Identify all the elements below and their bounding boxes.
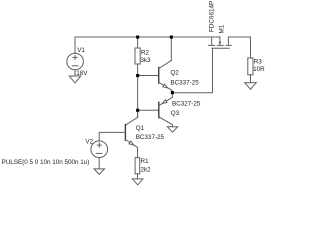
resistor R2 3k3 (135, 48, 140, 64)
svg-text:V2: V2 (85, 139, 93, 146)
svg-text:Q3: Q3 (171, 110, 180, 117)
wire R1 bottom (137, 174, 139, 179)
svg-text:V1: V1 (77, 47, 85, 54)
junction node rail/R2 (136, 36, 139, 39)
ground below V1 (69, 76, 81, 83)
svg-text:10R: 10R (253, 66, 265, 73)
svg-text:R2: R2 (141, 49, 150, 56)
mosfet M1 FDC6614P (209, 37, 232, 48)
svg-text:3k3: 3k3 (140, 57, 151, 64)
svg-text:M1: M1 (218, 24, 225, 33)
junction node emitters/gate (171, 91, 174, 94)
svg-text:18V: 18V (76, 70, 88, 77)
voltage source V2 (91, 141, 108, 169)
wire Q2 base (138, 75, 159, 77)
wire V1 stem (74, 37, 76, 53)
svg-text:PULSE(0 5 0 10n 10n 500n 1u): PULSE(0 5 0 10n 10n 500n 1u) (2, 159, 90, 166)
svg-text:R3: R3 (254, 58, 263, 65)
wire Q3 base (138, 109, 159, 111)
ground below V2 (94, 169, 105, 175)
resistor R3 10R (248, 58, 253, 75)
ground below Q3 (167, 127, 177, 133)
transistor Q3 BC327-25 (159, 93, 173, 127)
wire M1 gate down and left to Q2/Q3 emitter node (172, 48, 212, 92)
junction node rail/Q2 collector (170, 36, 173, 39)
wire R2 bottom vertical down past Q2/Q3 base taps to Q1 collector knee (137, 64, 139, 117)
wire top rail right (M1 drain to R3) (228, 37, 250, 58)
svg-text:BC327-25: BC327-25 (172, 100, 201, 107)
junction node R2/Q3 base (136, 109, 139, 112)
wire top rail left (V1 to M1 source/body) (75, 36, 220, 38)
transistor Q2 BC337-25 (159, 37, 172, 93)
ground below R1 (132, 179, 143, 185)
junction node R2/Q2 base (136, 74, 139, 77)
svg-text:Q1: Q1 (136, 125, 145, 132)
wire R2 stem from rail (137, 37, 139, 48)
svg-text:Q2: Q2 (170, 70, 179, 77)
wire Q1 base from V2 (99, 132, 125, 141)
svg-text:BC337-25: BC337-25 (170, 79, 199, 86)
wire R3 bottom (250, 75, 252, 83)
svg-text:FDC6614P: FDC6614P (209, 1, 216, 32)
resistor R1 2k2 (135, 158, 140, 174)
svg-text:R1: R1 (141, 158, 150, 165)
voltage source V1 (67, 53, 84, 76)
svg-text:BC337-25: BC337-25 (136, 134, 165, 141)
svg-text:2k2: 2k2 (141, 166, 152, 173)
transistor Q1 BC337-25 (125, 110, 137, 157)
ground below R3 (245, 83, 257, 90)
